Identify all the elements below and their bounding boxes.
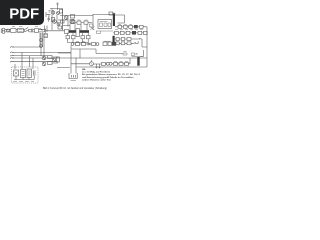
wire <box>52 15 68 30</box>
capacitor C16 <box>34 71 36 76</box>
wire <box>115 27 147 67</box>
regulator U3 <box>21 70 26 78</box>
resistor R13 <box>76 42 80 46</box>
aux row: diode D7 <box>71 43 74 46</box>
inductor L3 <box>106 62 112 65</box>
IC U1 bottom parts <box>96 31 113 34</box>
output chain: inductor L2 <box>90 60 94 66</box>
resistor R16 <box>114 61 118 65</box>
transistor Q5 <box>42 62 46 66</box>
resistor R4b <box>58 26 62 29</box>
rectifier row labels <box>115 29 143 31</box>
capacitor C1 <box>32 29 33 33</box>
terminal X3 <box>11 58 15 59</box>
wire <box>115 39 147 47</box>
resistor R19 <box>132 53 138 56</box>
capacitor C10b <box>144 31 148 34</box>
winding W3 <box>81 36 85 39</box>
diode D6 <box>116 42 119 45</box>
label ZF <box>123 52 127 56</box>
winding W2 <box>72 36 76 39</box>
terminal X4 <box>11 61 15 62</box>
regulator VR2 <box>127 42 131 45</box>
resistor R12 <box>57 57 60 62</box>
wire drops into box <box>15 52 33 69</box>
resistor R6 <box>71 15 75 19</box>
wire <box>115 41 139 43</box>
wire hv link loop <box>115 15 125 23</box>
secondary winding bar <box>113 36 115 45</box>
wire stub <box>46 12 49 17</box>
diode arrow A1 <box>139 38 141 40</box>
wire <box>40 33 43 48</box>
wire <box>68 33 89 43</box>
regulator U4 <box>27 69 32 78</box>
capacitor C8 <box>126 31 130 34</box>
terminal X1 <box>11 47 15 48</box>
connector J2 label <box>71 79 77 81</box>
resistor R8 <box>77 20 81 24</box>
capacitor C14 shunt <box>99 64 101 68</box>
wire <box>14 76 34 80</box>
snubber box <box>109 12 113 15</box>
opto dark box <box>112 42 116 46</box>
wire bus <box>12 57 147 59</box>
wire <box>76 50 147 67</box>
wire <box>52 53 71 68</box>
note text block <box>82 69 141 81</box>
svg-text:PDF: PDF <box>9 5 39 22</box>
switch S1 <box>25 28 29 32</box>
svg-text:Bei geänderten Werten anpassen: Bei geänderten Werten anpassen: R1, C3, … <box>82 73 141 76</box>
node sense wires <box>41 33 44 56</box>
capacitor C6 dark <box>134 25 138 28</box>
capacitor C9 dark <box>132 31 136 35</box>
wire <box>71 44 96 58</box>
transformer T1 gap box <box>76 29 80 37</box>
diode D8 <box>88 43 90 45</box>
resistor R5 <box>61 20 65 23</box>
wire <box>70 22 92 30</box>
PDF badge <box>0 0 44 25</box>
terminal X2 <box>11 52 15 53</box>
relay contact K1 <box>39 29 43 31</box>
wire <box>12 51 71 53</box>
capacitor C11 <box>121 38 125 41</box>
lamp DS3 <box>96 43 99 46</box>
lamp L1 <box>7 29 10 32</box>
fuse F1 <box>11 29 17 33</box>
transformer T1 primary bar <box>69 30 76 33</box>
varistor RV1 <box>35 29 39 33</box>
winding W1 <box>66 36 70 39</box>
IC U1 pins <box>100 23 111 27</box>
capacitor C2 <box>48 11 51 18</box>
capacitor C5 <box>129 25 133 29</box>
resistor R10 <box>48 56 53 59</box>
capacitor C7 <box>140 25 144 28</box>
connector ferrite bar <box>137 57 139 66</box>
transistor Q2 <box>57 12 60 15</box>
mains labels <box>12 26 38 28</box>
resistor R11 <box>48 62 53 65</box>
wire mid rail <box>96 53 123 55</box>
lamp DS1 <box>40 39 43 42</box>
resistor R6b <box>65 30 69 34</box>
diode D4 <box>120 31 124 34</box>
svg-text:L1 = 10 Wdg. auf Ferritkern: L1 = 10 Wdg. auf Ferritkern <box>82 71 111 74</box>
opto block U2 <box>103 41 112 45</box>
resistor R15 <box>92 43 96 46</box>
bridge rectifier BR1 <box>14 70 19 76</box>
wire rail lower <box>5 31 46 33</box>
transistor Q3 <box>53 20 57 24</box>
wire main vertical <box>62 9 64 31</box>
resistor R7 <box>71 20 75 24</box>
diode arrow A2 <box>134 43 136 45</box>
transistor Q6 <box>52 58 56 62</box>
transistor Q5 <box>64 16 68 20</box>
wire <box>71 58 130 64</box>
wire <box>58 16 73 26</box>
resistor R4 <box>52 18 55 22</box>
wire badge drop <box>45 26 48 32</box>
capacitor C12 <box>121 42 125 45</box>
wire <box>12 61 58 63</box>
resistor R9 <box>84 20 88 24</box>
wire vertical drops <box>71 50 76 74</box>
winding W4 <box>87 36 91 39</box>
transistor Q1 <box>51 11 55 15</box>
regulator VR1 <box>127 38 131 41</box>
svg-text:Bild 4: Konzept RK 10, mit Net: Bild 4: Konzept RK 10, mit Netzteil und … <box>43 87 107 90</box>
wire <box>113 32 144 34</box>
wire mains rail <box>46 29 65 33</box>
diode row D1 <box>118 25 122 29</box>
resistor R14 <box>82 42 86 46</box>
capacitor C13 shunt <box>96 64 98 68</box>
antenna node label <box>132 56 144 58</box>
junction cross <box>90 24 95 30</box>
diode row D2 <box>124 25 128 29</box>
resistor R18 <box>125 61 129 65</box>
connector J2 <box>69 73 77 79</box>
wire top rail <box>50 9 63 12</box>
IC U1 label <box>100 20 108 22</box>
filter block FL1 <box>18 29 24 33</box>
capacitor C10 <box>138 31 142 34</box>
wire <box>12 55 47 57</box>
PSU dashed box <box>12 67 39 83</box>
transistor Q4 <box>57 23 60 26</box>
capacitor C3 <box>48 17 51 22</box>
aux relay box <box>44 34 48 38</box>
resistor R3 <box>60 10 63 14</box>
diode D3 <box>115 31 119 34</box>
resistor R17 <box>119 61 123 65</box>
wire <box>12 46 42 48</box>
bridge box X <box>70 20 74 24</box>
transformer T1 core bar <box>112 13 115 26</box>
wire top distribution <box>73 14 113 30</box>
lamp DS2 <box>40 45 43 48</box>
terminal X2b <box>11 55 15 56</box>
svg-text:und Netzsicherung gemäß Tabell: und Netzsicherung gemäß Tabelle im Text … <box>82 76 134 79</box>
transistor Q4 <box>42 56 46 60</box>
mains plug P1 <box>1 28 5 33</box>
IC U1 box <box>98 20 112 29</box>
diode D5 <box>116 38 119 41</box>
antenna stub <box>56 3 58 9</box>
wire rail upper <box>5 28 46 30</box>
resistor R15b <box>102 62 106 65</box>
transformer T1 secondary bar <box>80 30 90 33</box>
svg-text:weitere Hinweise siehe Text: weitere Hinweise siehe Text <box>82 78 111 81</box>
PSU box labels <box>13 80 34 82</box>
